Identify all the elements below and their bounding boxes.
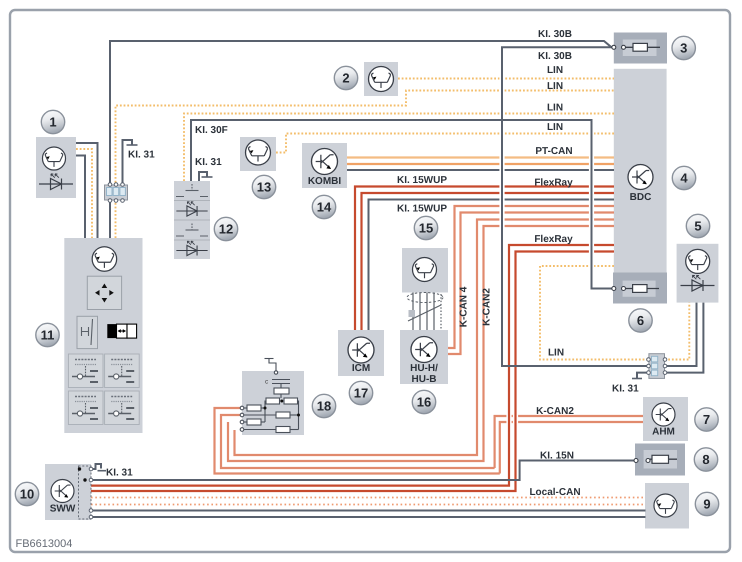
svg-text:K-CAN2: K-CAN2 <box>482 288 493 326</box>
svg-text:KI. 31: KI. 31 <box>195 157 222 168</box>
svg-text:AHM: AHM <box>652 427 675 438</box>
svg-text:LIN: LIN <box>547 122 563 133</box>
svg-text:1: 1 <box>49 115 56 130</box>
svg-text:4: 4 <box>680 171 688 186</box>
svg-text:KI. 15WUP: KI. 15WUP <box>397 175 447 186</box>
svg-text:SWW: SWW <box>50 504 76 515</box>
svg-text:13: 13 <box>257 180 271 195</box>
svg-text:17: 17 <box>354 386 368 401</box>
svg-text:KI. 30F: KI. 30F <box>195 125 228 136</box>
svg-text:BDC: BDC <box>630 192 652 203</box>
svg-text:KI. 30B: KI. 30B <box>538 51 572 62</box>
svg-text:14: 14 <box>317 200 332 215</box>
svg-text:FlexRay: FlexRay <box>534 178 573 189</box>
svg-text:K-CAN 4: K-CAN 4 <box>459 286 470 327</box>
svg-text:KI. 15WUP: KI. 15WUP <box>397 204 447 215</box>
svg-text:2: 2 <box>342 71 349 86</box>
svg-text:LIN: LIN <box>547 103 563 114</box>
svg-text:KI. 30B: KI. 30B <box>538 29 572 40</box>
svg-text:8: 8 <box>702 452 709 467</box>
svg-text:15: 15 <box>419 221 433 236</box>
svg-text:PT-CAN: PT-CAN <box>535 146 572 157</box>
svg-text:7: 7 <box>703 412 710 427</box>
svg-text:9: 9 <box>703 497 710 512</box>
svg-text:LIN: LIN <box>547 81 563 92</box>
svg-text:KI. 31: KI. 31 <box>106 468 133 479</box>
svg-text:K-CAN2: K-CAN2 <box>536 406 574 417</box>
svg-text:16: 16 <box>417 395 431 410</box>
svg-text:LIN: LIN <box>547 65 563 76</box>
svg-text:11: 11 <box>41 328 55 343</box>
svg-text:ICM: ICM <box>352 363 370 374</box>
svg-text:3: 3 <box>680 41 687 56</box>
svg-text:KI. 31: KI. 31 <box>612 384 639 395</box>
svg-text:6: 6 <box>637 313 644 328</box>
svg-text:FB6613004: FB6613004 <box>16 538 73 550</box>
svg-text:HU-H/: HU-H/ <box>410 363 438 374</box>
svg-text:5: 5 <box>694 219 701 234</box>
svg-text:KI. 31: KI. 31 <box>128 150 155 161</box>
svg-text:FlexRay: FlexRay <box>534 234 573 245</box>
svg-text:HU-B: HU-B <box>412 374 437 385</box>
svg-text:18: 18 <box>317 399 331 414</box>
svg-text:KOMBI: KOMBI <box>308 176 342 187</box>
svg-text:10: 10 <box>20 487 34 502</box>
svg-text:LIN: LIN <box>548 348 564 359</box>
svg-text:Local-CAN: Local-CAN <box>529 487 580 498</box>
svg-text:12: 12 <box>219 222 233 237</box>
svg-text:KI. 15N: KI. 15N <box>540 451 574 462</box>
